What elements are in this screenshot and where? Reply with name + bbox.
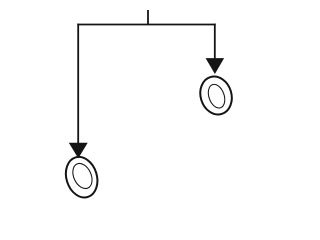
wire: horizontal connector xyxy=(77,24,215,26)
arrowhead: right (filled) xyxy=(206,58,225,74)
wire: left vertical drop xyxy=(77,24,79,144)
node: left outer ellipse xyxy=(61,153,102,202)
node: right outer ellipse xyxy=(196,73,237,119)
node: left inner ellipse xyxy=(69,160,96,191)
wire: top center stub xyxy=(147,10,149,25)
arrowhead: left (filled) xyxy=(69,143,88,159)
wire: right vertical drop xyxy=(214,24,216,59)
node: right inner ellipse xyxy=(205,82,227,110)
